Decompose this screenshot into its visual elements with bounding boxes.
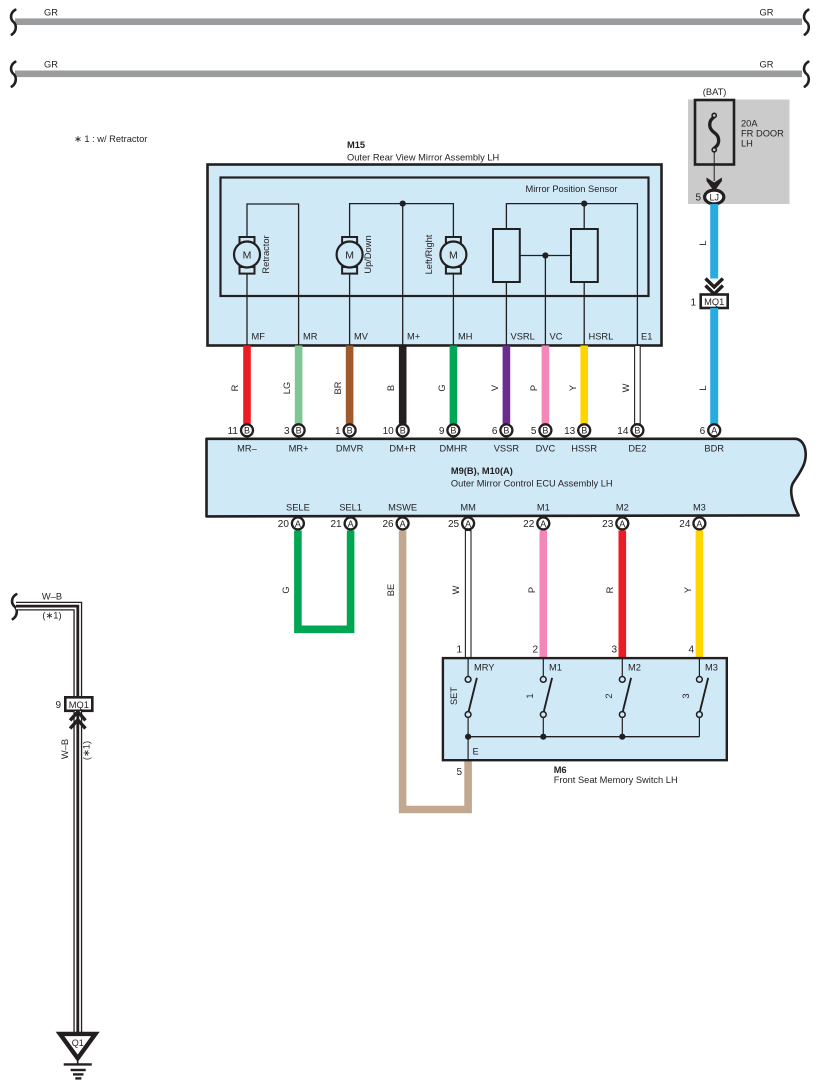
svg-text:VC: VC bbox=[550, 332, 563, 342]
svg-text:V: V bbox=[490, 384, 500, 391]
junction sensor top bbox=[581, 201, 587, 207]
break symbol W-B bbox=[12, 594, 17, 619]
connector 10 B bbox=[383, 424, 409, 437]
wire V violet pin6 bbox=[503, 346, 511, 424]
svg-text:Retractor: Retractor bbox=[261, 235, 271, 273]
svg-text:A: A bbox=[348, 519, 354, 529]
svg-text:5: 5 bbox=[531, 426, 537, 437]
wire up/down motor to MV bbox=[349, 273, 351, 345]
svg-text:M: M bbox=[449, 249, 458, 261]
svg-text:W: W bbox=[621, 383, 631, 392]
svg-text:M2: M2 bbox=[628, 663, 641, 673]
connector 23 A bbox=[602, 517, 628, 530]
svg-text:MR+: MR+ bbox=[289, 444, 309, 454]
svg-text:1: 1 bbox=[525, 693, 535, 698]
svg-text:P: P bbox=[529, 385, 539, 391]
svg-text:MQ1: MQ1 bbox=[69, 700, 89, 710]
svg-text:MF: MF bbox=[252, 332, 266, 342]
svg-text:A: A bbox=[696, 519, 702, 529]
wire sensor1 bottom to VSRL bbox=[505, 282, 507, 345]
wire LG pin3 bbox=[295, 346, 303, 424]
wire retractor motor to MF bbox=[246, 273, 248, 345]
svg-text:FR DOOR: FR DOOR bbox=[741, 129, 784, 139]
svg-text:B: B bbox=[296, 426, 302, 436]
svg-text:24: 24 bbox=[679, 519, 691, 530]
svg-text:E1: E1 bbox=[641, 332, 652, 342]
connector 5 LJ bbox=[705, 190, 724, 204]
svg-text:B: B bbox=[400, 426, 406, 436]
wire left/right motor to MH bbox=[452, 273, 454, 345]
svg-text:BR: BR bbox=[333, 381, 343, 394]
svg-text:DMHR: DMHR bbox=[439, 444, 467, 454]
fuse element symbol bbox=[710, 113, 719, 152]
wire Y yellow pin13 bbox=[580, 346, 588, 424]
connector 3 B bbox=[284, 424, 305, 437]
switch SET bbox=[465, 659, 477, 737]
svg-text:Front Seat Memory Switch LH: Front Seat Memory Switch LH bbox=[554, 775, 678, 785]
svg-text:MV: MV bbox=[354, 332, 369, 342]
wire E to box bottom bbox=[467, 737, 469, 759]
svg-text:SELE: SELE bbox=[286, 503, 310, 513]
svg-text:BDR: BDR bbox=[704, 444, 724, 454]
wire Y yellow M3 bbox=[696, 531, 704, 659]
sensor element horizontal (HSRL) bbox=[571, 229, 598, 282]
switch 3 bbox=[697, 659, 709, 737]
fuse block gray box bbox=[688, 100, 790, 205]
svg-text:MR–: MR– bbox=[237, 444, 257, 454]
svg-text:Up/Down: Up/Down bbox=[363, 235, 373, 273]
svg-text:M+: M+ bbox=[407, 332, 420, 342]
switch 1 bbox=[540, 659, 552, 737]
svg-text:Outer Rear View Mirror Assembl: Outer Rear View Mirror Assembly LH bbox=[347, 152, 499, 162]
connector 13 B bbox=[564, 424, 590, 437]
svg-text:MRY: MRY bbox=[474, 663, 495, 673]
wire switch common bus bbox=[468, 736, 699, 738]
svg-text:SEL1: SEL1 bbox=[339, 503, 362, 513]
svg-text:21: 21 bbox=[330, 519, 342, 530]
svg-text:M15: M15 bbox=[347, 140, 365, 150]
wire L blue LJ to MQ1 bbox=[710, 204, 718, 279]
svg-text:A: A bbox=[540, 519, 546, 529]
svg-text:(∗1): (∗1) bbox=[82, 741, 92, 760]
connector 25 A bbox=[448, 517, 474, 530]
connector 6 A (BDR) bbox=[700, 424, 721, 437]
svg-text:W–B: W–B bbox=[60, 739, 70, 759]
svg-text:B: B bbox=[347, 426, 353, 436]
wire L blue MQ1 to BDR bbox=[710, 308, 718, 424]
svg-text:5: 5 bbox=[456, 767, 462, 778]
wire G green loop SELE to SEL1 bbox=[298, 531, 351, 630]
wire P pink M1 bbox=[540, 531, 548, 659]
connector 1 MQ1 (right) bbox=[701, 295, 728, 309]
svg-text:DM+R: DM+R bbox=[389, 444, 416, 454]
svg-text:9: 9 bbox=[55, 700, 61, 711]
connector 24 A bbox=[679, 517, 705, 530]
svg-text:LG: LG bbox=[282, 382, 292, 394]
svg-text:W–B: W–B bbox=[42, 592, 62, 602]
svg-text:Q1: Q1 bbox=[72, 1038, 84, 1048]
connector 9 B bbox=[439, 424, 460, 437]
svg-text:E: E bbox=[473, 747, 479, 757]
switch 2 bbox=[619, 659, 631, 737]
connector 26 A bbox=[382, 517, 408, 530]
svg-text:B: B bbox=[503, 426, 509, 436]
svg-text:2: 2 bbox=[604, 693, 614, 698]
svg-text:M1: M1 bbox=[549, 663, 562, 673]
svg-text:M3: M3 bbox=[705, 663, 718, 673]
svg-text:MM: MM bbox=[460, 503, 476, 513]
svg-text:VSRL: VSRL bbox=[511, 332, 535, 342]
svg-text:MQ1: MQ1 bbox=[704, 297, 724, 307]
connector 22 A bbox=[523, 517, 549, 530]
svg-text:MR: MR bbox=[303, 332, 318, 342]
M15 box Outer Rear View Mirror Assembly LH bbox=[208, 165, 662, 346]
mirror position sensor inner box bbox=[221, 178, 649, 297]
svg-text:26: 26 bbox=[382, 519, 394, 530]
wire W-B horizontal+vertical to MQ1 bbox=[16, 606, 78, 697]
connector 14 B bbox=[617, 424, 643, 437]
svg-text:1: 1 bbox=[335, 426, 341, 437]
svg-text:M: M bbox=[345, 249, 354, 261]
svg-text:M: M bbox=[243, 249, 252, 261]
svg-text:Mirror Position Sensor: Mirror Position Sensor bbox=[526, 184, 618, 194]
svg-text:4: 4 bbox=[688, 645, 694, 656]
wire R red M2 bbox=[619, 531, 627, 659]
svg-text:LJ: LJ bbox=[709, 192, 719, 202]
svg-text:M6: M6 bbox=[554, 765, 567, 775]
svg-text:M9(B), M10(A): M9(B), M10(A) bbox=[451, 466, 513, 476]
svg-text:M1: M1 bbox=[537, 503, 550, 513]
junction VC bbox=[542, 252, 548, 258]
connector 6 B bbox=[492, 424, 513, 437]
svg-text:M2: M2 bbox=[616, 503, 629, 513]
svg-text:A: A bbox=[619, 519, 625, 529]
svg-text:22: 22 bbox=[523, 519, 535, 530]
svg-text:14: 14 bbox=[617, 426, 629, 437]
junction M+ bbox=[400, 201, 406, 207]
ground stem bbox=[77, 1058, 79, 1064]
arrow into LJ bbox=[707, 178, 722, 192]
svg-text:Left/Right: Left/Right bbox=[424, 234, 434, 274]
svg-text:MSWE: MSWE bbox=[388, 503, 417, 513]
junction M2 bus bbox=[619, 734, 625, 740]
svg-text:HSRL: HSRL bbox=[589, 332, 614, 342]
svg-text:23: 23 bbox=[602, 519, 614, 530]
svg-text:1: 1 bbox=[690, 298, 696, 309]
break symbol bus2 right bbox=[804, 62, 809, 87]
svg-text:DMVR: DMVR bbox=[336, 444, 364, 454]
svg-text:10: 10 bbox=[383, 426, 395, 437]
svg-text:SET: SET bbox=[449, 687, 459, 705]
svg-text:(∗1): (∗1) bbox=[42, 611, 61, 621]
wire GR bus 2 bbox=[15, 71, 802, 78]
svg-text:B: B bbox=[634, 426, 640, 436]
ground Q1 bbox=[60, 1034, 95, 1058]
connector 11 B bbox=[228, 424, 253, 437]
svg-text:3: 3 bbox=[611, 645, 617, 656]
M6 box Front Seat Memory Switch LH bbox=[443, 658, 727, 760]
wire P pink pin5 bbox=[542, 346, 550, 424]
svg-text:GR: GR bbox=[760, 8, 774, 18]
wire sensor2 top drop bbox=[583, 204, 585, 229]
connector arrows out of MQ1 (up) bbox=[70, 712, 85, 721]
svg-text:Y: Y bbox=[683, 587, 693, 593]
svg-text:G: G bbox=[281, 586, 291, 593]
wire retractor motor top to MR bbox=[247, 204, 299, 345]
svg-text:20A: 20A bbox=[741, 119, 758, 129]
svg-text:Y: Y bbox=[568, 385, 578, 391]
svg-text:A: A bbox=[711, 426, 717, 436]
svg-text:3: 3 bbox=[681, 693, 691, 698]
connector 21 A bbox=[330, 517, 356, 530]
wire R red pin11 bbox=[243, 346, 251, 424]
wire motor tops common to M+ bbox=[350, 204, 454, 237]
svg-text:M3: M3 bbox=[693, 503, 706, 513]
svg-text:MH: MH bbox=[458, 332, 472, 342]
svg-text:25: 25 bbox=[448, 519, 460, 530]
wire G green pin9 bbox=[450, 346, 458, 424]
svg-text:A: A bbox=[295, 519, 301, 529]
svg-text:L: L bbox=[698, 240, 708, 245]
svg-text:R: R bbox=[605, 586, 615, 593]
svg-text:Outer Mirror Control ECU Assem: Outer Mirror Control ECU Assembly LH bbox=[451, 478, 613, 488]
svg-text:BE: BE bbox=[386, 584, 396, 596]
svg-text:B: B bbox=[581, 426, 587, 436]
wire BE tan MSWE to M6 E bbox=[403, 531, 469, 810]
svg-text:HSSR: HSSR bbox=[571, 444, 597, 454]
connector 1 B bbox=[335, 424, 356, 437]
svg-text:6: 6 bbox=[492, 426, 498, 437]
svg-text:A: A bbox=[465, 519, 471, 529]
wire W-B MQ1 to ground bbox=[73, 711, 82, 1033]
break symbol bus1 right bbox=[804, 10, 809, 35]
svg-text:∗ 1 : w/ Retractor: ∗ 1 : w/ Retractor bbox=[74, 134, 147, 144]
svg-text:R: R bbox=[230, 384, 240, 391]
break symbol bus1 left bbox=[11, 10, 16, 35]
svg-text:A: A bbox=[400, 519, 406, 529]
svg-text:GR: GR bbox=[760, 60, 774, 70]
svg-text:3: 3 bbox=[284, 426, 290, 437]
fuse FR DOOR LH box bbox=[695, 100, 734, 165]
svg-text:1: 1 bbox=[456, 645, 462, 656]
svg-text:B: B bbox=[386, 385, 396, 391]
wire W white pin14 bbox=[635, 346, 641, 424]
wire sensor mid to VC bbox=[520, 255, 571, 257]
svg-text:(BAT): (BAT) bbox=[703, 87, 727, 97]
svg-text:9: 9 bbox=[439, 426, 445, 437]
junction M1 bus bbox=[540, 734, 546, 740]
wire fuse to arrow bbox=[713, 152, 715, 181]
wire GR bus 1 bbox=[15, 18, 802, 25]
junction SET bus bbox=[465, 734, 471, 740]
svg-text:B: B bbox=[450, 426, 456, 436]
sensor element vertical (VSRL) bbox=[493, 229, 520, 282]
wire BR pin1 bbox=[346, 346, 354, 424]
svg-text:20: 20 bbox=[278, 519, 290, 530]
svg-text:13: 13 bbox=[564, 426, 576, 437]
connector arrows into MQ1 bbox=[706, 279, 723, 288]
svg-text:B: B bbox=[244, 426, 250, 436]
svg-text:GR: GR bbox=[44, 8, 58, 18]
svg-text:W: W bbox=[451, 585, 461, 594]
svg-text:DE2: DE2 bbox=[628, 444, 646, 454]
svg-text:L: L bbox=[698, 385, 708, 390]
wire B black pin10 bbox=[399, 346, 407, 424]
svg-text:VSSR: VSSR bbox=[494, 444, 520, 454]
wire W white MM to MRY bbox=[465, 531, 471, 659]
svg-text:2: 2 bbox=[532, 645, 538, 656]
svg-text:DVC: DVC bbox=[536, 444, 556, 454]
svg-text:LH: LH bbox=[741, 139, 753, 149]
svg-text:B: B bbox=[542, 426, 548, 436]
wire sensor top bus to E1 bbox=[506, 204, 637, 345]
connector 9 MQ1 (left) bbox=[65, 697, 92, 711]
ECU box M9(B) M10(A) Outer Mirror Control ECU Assembly LH bbox=[207, 439, 806, 517]
svg-text:6: 6 bbox=[700, 426, 706, 437]
svg-text:5: 5 bbox=[695, 193, 701, 204]
wire sensor2 bottom to HSRL bbox=[583, 282, 585, 345]
motor M up/down bbox=[337, 237, 363, 274]
connector 20 A bbox=[278, 517, 304, 530]
motor M left/right bbox=[440, 237, 466, 274]
ground hatch bbox=[64, 1063, 92, 1065]
motor M retractor bbox=[234, 237, 260, 274]
break symbol bus2 left bbox=[11, 62, 16, 87]
svg-text:P: P bbox=[527, 587, 537, 593]
svg-text:GR: GR bbox=[44, 60, 58, 70]
svg-text:11: 11 bbox=[228, 426, 239, 437]
svg-text:G: G bbox=[437, 384, 447, 391]
connector 5 B bbox=[531, 424, 552, 437]
